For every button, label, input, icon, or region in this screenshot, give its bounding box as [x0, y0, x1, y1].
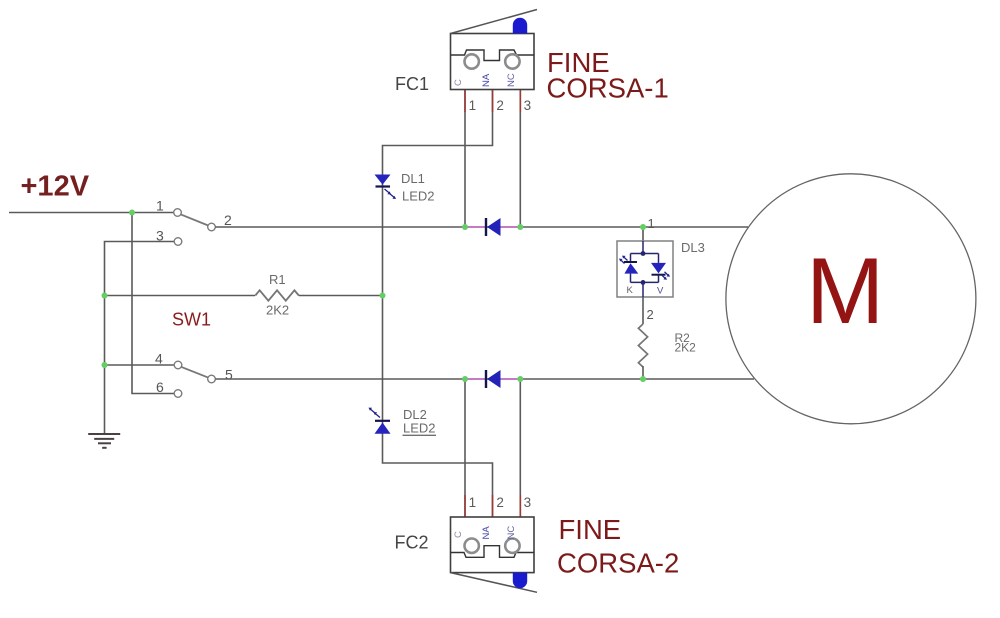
DL3 wire top stub [642, 227, 644, 241]
junction +12V [129, 210, 135, 216]
svg-text:CORSA-1: CORSA-1 [547, 73, 669, 104]
DL3 right LED triangle [651, 263, 666, 274]
resistor R1 [255, 290, 299, 300]
svg-text:NC: NC [506, 526, 517, 540]
wire R1 to DL branch junction [299, 295, 383, 297]
wire +12V to SW1 pole 1 [9, 212, 174, 214]
FC2 hole right [505, 539, 519, 553]
svg-text:2K2: 2K2 [266, 303, 289, 318]
FC2 button [513, 573, 527, 589]
SW1 contact 2 [208, 223, 216, 231]
svg-text:K: K [627, 285, 634, 296]
FC2 pin stubs (red) [465, 495, 520, 517]
junction bottom rail FC2 pin1 [462, 376, 468, 382]
SW1 contact 3 [174, 238, 182, 246]
FC2 lever [451, 573, 538, 593]
svg-text:CORSA-2: CORSA-2 [557, 548, 679, 579]
svg-text:2: 2 [496, 98, 504, 113]
svg-text:FC1: FC1 [395, 74, 429, 94]
svg-text:DL3: DL3 [681, 240, 705, 255]
svg-text:M: M [806, 238, 884, 343]
SW1 contact 5 [208, 375, 216, 383]
svg-text:1: 1 [648, 216, 655, 231]
wire R1 left [105, 295, 256, 297]
svg-text:3: 3 [156, 228, 164, 244]
resistor R2 [638, 324, 647, 367]
svg-text:1: 1 [156, 198, 164, 214]
wire contact 3 to ground rail [105, 242, 175, 435]
wire top rail [216, 226, 749, 228]
svg-text:2K2: 2K2 [675, 341, 697, 355]
FC2 pin names [453, 526, 517, 540]
FC1 pin names [453, 73, 517, 87]
junction R1 left [102, 293, 108, 299]
FC1 hole right [505, 54, 519, 68]
junction top rail FC1 pin3 [517, 224, 523, 230]
FC1 button [513, 18, 527, 34]
wire DL3 to R2 [642, 297, 644, 324]
svg-text:C: C [453, 531, 464, 538]
FC2 pin numbers [469, 495, 532, 510]
SW1 lever 4-5 [181, 367, 208, 378]
FC2 contact line [451, 546, 535, 558]
FC1 body [451, 34, 535, 90]
LED DL1 (cathode bar) [376, 185, 391, 187]
wire FC2 pin1 to bottom rail [464, 379, 466, 517]
DL3 internals [631, 241, 659, 297]
LED DL2 (triangle) [375, 423, 391, 434]
svg-text:LED2: LED2 [403, 421, 436, 436]
svg-text:1: 1 [469, 495, 477, 510]
wire FC1 pin3 to top rail [519, 90, 521, 227]
svg-text:3: 3 [524, 98, 532, 113]
svg-text:1: 1 [469, 98, 477, 113]
junction R1 right [380, 293, 386, 299]
junction top rail DL3 [640, 224, 646, 230]
svg-text:+12V: +12V [21, 171, 90, 203]
FC1 pin numbers [469, 98, 532, 113]
wire FC1 pin1 to top rail [464, 90, 466, 227]
DL3 arrows [619, 256, 670, 280]
wire junction to contact 6 [132, 213, 174, 394]
svg-text:SW1: SW1 [172, 310, 211, 330]
FC1 hole left [465, 54, 479, 68]
diode top (cathode bar) [485, 218, 487, 236]
wire FC1 pin2 through DL1 DL2 to FC2 pin2 [383, 90, 493, 517]
wire R2 to bottom rail [642, 366, 644, 379]
svg-text:6: 6 [156, 379, 164, 395]
FC2 body [451, 517, 535, 573]
junction pole 4 [102, 362, 108, 368]
FC1 pin stubs (red) [465, 90, 520, 112]
DL3 pin dots [641, 251, 646, 256]
FC1 contact line [451, 50, 535, 61]
svg-text:R1: R1 [269, 272, 286, 287]
svg-text:NA: NA [481, 73, 492, 87]
svg-text:V: V [657, 286, 664, 297]
wire bottom rail [216, 378, 755, 380]
wire SW1 pole 4 [105, 364, 175, 366]
LED DL2 (cathode bar) [375, 420, 390, 422]
SW1 contact 4 [174, 361, 182, 369]
LED DL1 (triangle) [375, 175, 391, 185]
svg-text:2: 2 [224, 212, 232, 228]
junction top rail FC1 pin1 [462, 224, 468, 230]
svg-text:FINE: FINE [559, 514, 622, 545]
junction bottom rail R2 [640, 376, 646, 382]
DL3 left LED bar [624, 261, 637, 263]
wire FC2 pin3 to bottom rail [519, 379, 521, 517]
svg-text:LED2: LED2 [402, 189, 435, 204]
svg-text:FC2: FC2 [395, 533, 429, 553]
LED DL2 (arrows) [369, 408, 381, 418]
SW1 contact 1 [174, 209, 182, 217]
wire bottom rail magenta segments [465, 378, 520, 380]
svg-text:NC: NC [506, 73, 517, 87]
SW1 lever 1-2 [181, 214, 208, 225]
svg-text:DL1: DL1 [401, 171, 425, 186]
junction bottom rail FC2 pin3 [517, 376, 523, 382]
svg-text:5: 5 [225, 367, 233, 383]
motor circle [726, 174, 976, 424]
svg-text:2: 2 [647, 307, 654, 322]
SW1 contact 6 [174, 390, 182, 398]
FC1 lever [451, 10, 538, 34]
svg-text:3: 3 [524, 495, 532, 510]
DL3 box [617, 241, 673, 297]
svg-text:2: 2 [496, 495, 504, 510]
wire top rail magenta segments [465, 226, 520, 228]
diode bottom (triangle) [487, 370, 501, 388]
svg-text:4: 4 [155, 351, 163, 367]
diode bottom (cathode bar) [485, 370, 487, 388]
diode top (triangle) [487, 218, 501, 236]
DL3 left LED triangle [624, 263, 638, 273]
LED DL1 (arrows) [385, 189, 397, 199]
FC2 hole left [465, 539, 479, 553]
ground [88, 434, 120, 448]
svg-text:C: C [453, 79, 464, 86]
svg-text:NA: NA [481, 526, 492, 540]
DL3 right LED bar [652, 274, 666, 276]
SW1 pin numbers [155, 198, 233, 396]
